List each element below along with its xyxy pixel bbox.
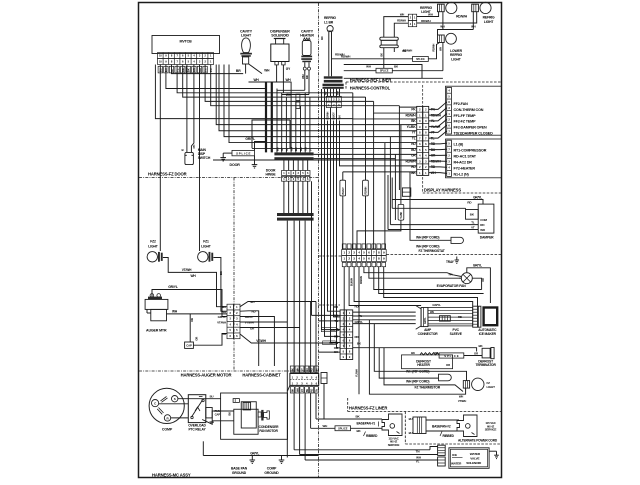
svg-text:BK: BK [292, 389, 295, 393]
svg-text:HINGE: HINGE [266, 172, 277, 176]
ground door [222, 153, 224, 158]
wire ref conn down 4 [331, 108, 341, 343]
svg-text:REFRIG: REFRIG [324, 16, 336, 20]
staircase wire row2 RD/WH [374, 101, 417, 113]
svg-text:GR/YL: GR/YL [424, 317, 427, 324]
svg-text:HEATER: HEATER [300, 34, 314, 38]
wire fz col7 staircase [374, 267, 482, 290]
svg-text:BU: BU [222, 305, 226, 309]
connector cabinet [290, 374, 319, 386]
wire stair x399.4 down [398, 107, 400, 190]
svg-text:CAP: CAP [215, 413, 221, 417]
svg-text:DOOR: DOOR [230, 163, 241, 167]
svg-text:GY: GY [301, 368, 304, 372]
fz fan light bulb [463, 378, 484, 390]
svg-text:YT: YT [412, 131, 416, 135]
svg-text:VT/WH: VT/WH [256, 339, 266, 343]
wire stair x373.6 down [373, 113, 375, 249]
wire tag3 vertical [400, 125, 402, 205]
svg-text:BU/GY: BU/GY [342, 187, 345, 195]
svg-text:VT/WH: VT/WH [245, 321, 254, 325]
wire splice to plug 1 [351, 427, 383, 429]
svg-text:WH: WH [440, 25, 444, 29]
condenser fan circuit box [221, 393, 288, 439]
svg-text:WH: WH [253, 78, 259, 82]
wire trunk heavy 1 [265, 82, 267, 152]
svg-text:BU: BU [409, 417, 413, 421]
svg-text:WH (RIP CORD): WH (RIP CORD) [416, 236, 439, 240]
svg-text:WH: WH [264, 69, 270, 73]
svg-text:BK: BK [219, 271, 223, 275]
svg-text:GY: GY [301, 389, 304, 393]
wire tag2 vertical [365, 97, 367, 180]
condenser fan motor tag [233, 399, 239, 403]
svg-text:GR/YL: GR/YL [245, 137, 255, 141]
connector J1 MVTCB row2 [158, 59, 214, 65]
svg-text:OR: OR [190, 318, 194, 322]
staircase wire row12 WH [410, 171, 417, 173]
center trunk verticals lower [294, 393, 316, 460]
condenser fan motor coil [243, 402, 251, 410]
ground below splice [254, 156, 256, 165]
splice basepan [335, 426, 351, 431]
svg-text:TN: TN [316, 389, 319, 392]
svg-text:GR/YL: GR/YL [245, 315, 254, 319]
wire ref conn down to AMP region 2 [334, 121, 341, 317]
svg-text:SPLICE: SPLICE [416, 58, 425, 61]
wire L1 down to tape [328, 32, 330, 77]
wire dispenser foot drop right GY [282, 65, 284, 93]
svg-text:WH: WH [286, 93, 292, 97]
wire bottom bus GR/YL [203, 455, 318, 457]
svg-text:FZ2: FZ2 [150, 240, 156, 244]
MVTCB pin wire labels [158, 66, 213, 73]
wire pin5 right to control stair x365.5 [183, 65, 366, 98]
wire lower light RD/WH to splice [428, 43, 439, 59]
svg-text:EVAPORATOR FAN: EVAPORATOR FAN [437, 284, 467, 288]
wires into 9-pin connector from left [312, 315, 341, 352]
svg-text:GR/YL: GR/YL [250, 451, 259, 455]
wire GR/YL to damper [392, 200, 483, 205]
display harness lower connector cells [447, 140, 452, 176]
overload PTC relay [188, 395, 206, 423]
svg-text:WH (RIP CORD): WH (RIP CORD) [416, 245, 439, 249]
dashed partition vertical center x=318.5 [318, 3, 320, 477]
wire auger pin2 RD [240, 311, 259, 366]
wire trunk heavy 2 [271, 82, 273, 152]
svg-text:FF2-FAN: FF2-FAN [454, 102, 469, 106]
display harness upper labels [454, 102, 494, 136]
wire FZ1 light to auger connector [213, 258, 227, 312]
svg-text:R4-AC2 DR: R4-AC2 DR [454, 161, 473, 165]
wire fz col9 staircase [384, 267, 478, 307]
staircase wire row5 YT [366, 97, 417, 131]
wire fz col5 evap PK [364, 267, 461, 277]
svg-text:RD: RD [311, 389, 314, 393]
wire pin4 right to control stair x352.8 [177, 65, 353, 93]
staircase wire row8 BU [289, 120, 291, 148]
dashed partition harness-fz-liner y=411.5 [348, 411, 501, 413]
wires rip cords [369, 320, 466, 394]
damper motor box [478, 204, 494, 233]
svg-text:WH: WH [285, 78, 291, 82]
svg-text:HARNESS-FZ DOOR: HARNESS-FZ DOOR [148, 172, 187, 177]
wire bus y29.5 to lower light [438, 30, 474, 36]
connector door hinge row1 [282, 171, 311, 176]
ref connector rotated labels below [327, 111, 342, 119]
svg-text:RD: RD [325, 91, 328, 95]
connector auger 6-pin left column [227, 304, 234, 339]
condenser fan motor body [234, 409, 258, 434]
wire into condenser box lower [212, 420, 234, 422]
svg-text:RD/WH: RD/WH [397, 18, 406, 22]
wire WH to splice basepan [311, 427, 335, 429]
svg-text:FAN MOTOR: FAN MOTOR [259, 429, 278, 433]
wire TN to valve [294, 449, 430, 451]
wire diagonal to cabinet connector [287, 385, 290, 391]
basepan 2 striped connector [413, 417, 426, 434]
svg-text:AUGER MTR: AUGER MTR [146, 329, 167, 333]
ice water valve solenoid box [449, 448, 489, 469]
svg-text:RD/WH: RD/WH [421, 19, 430, 23]
svg-text:BK: BK [411, 351, 415, 355]
svg-text:WH: WH [430, 310, 434, 314]
control board MVTCB [152, 36, 220, 54]
wire to damper coil box [392, 207, 465, 209]
wire auger motor to connector WH [167, 313, 228, 315]
connector ref 6-cell row1 [326, 96, 341, 102]
svg-text:L1 BR: L1 BR [324, 20, 334, 24]
rip cord capsule 1 [439, 374, 452, 381]
svg-text:GR/YL: GR/YL [218, 315, 227, 319]
wire ref liner y78.3 long [344, 77, 443, 79]
svg-text:RD/WH: RD/WH [365, 186, 368, 194]
wire fan y142.55 [229, 65, 385, 143]
wire WH conn to light1 [417, 12, 439, 17]
wire FZ2 light to auger connector [163, 258, 227, 307]
lamp cavity light bulb [240, 38, 252, 64]
wire relay bottom diagonal [202, 411, 234, 424]
svg-text:RD: RD [305, 75, 309, 79]
connector J1 MVTCB row1 [158, 53, 214, 59]
fz pass-through tags above [342, 244, 385, 249]
damper coil box [466, 210, 479, 220]
display harness upper block box [446, 86, 502, 135]
ref liner tape bar 4 [323, 87, 344, 89]
lamp FZ2 light [147, 252, 163, 262]
wire splice to door ground [223, 152, 232, 154]
staircase wire row3 BK [353, 93, 417, 119]
wire fan horizontals into trunk region [285, 96, 287, 98]
main control connector left column [417, 106, 423, 175]
svg-text:FF2-DAMPER OPEN: FF2-DAMPER OPEN [454, 126, 487, 130]
svg-text:TL: TL [471, 221, 475, 225]
lamp receptacle ref cavity [380, 37, 399, 47]
wire splice A left to L1 stack [332, 58, 413, 60]
wire fz col2 to amp [349, 267, 421, 306]
dashed partition harness-auger y=371 [139, 370, 319, 372]
wire pin7 to disp switch [191, 65, 194, 153]
svg-text:RD: RD [311, 368, 314, 372]
inline connector tags WH [296, 94, 300, 100]
dispenser solenoid [271, 39, 289, 65]
svg-text:CAP: CAP [186, 344, 192, 348]
power plug basepan 2 [457, 415, 477, 437]
svg-text:RD/WH: RD/WH [433, 43, 436, 51]
ground compressor [281, 456, 283, 461]
wire lower light WH drop [442, 43, 444, 71]
svg-text:HARNESS-CABINET: HARNESS-CABINET [242, 373, 281, 378]
svg-text:BU/GY: BU/GY [333, 112, 336, 120]
svg-text:BU: BU [275, 147, 279, 151]
splice defrost [439, 353, 464, 358]
connector ref 6-cell row2 [326, 102, 341, 108]
dashed partition harness-ref-liner y=82 [346, 81, 501, 83]
door hinge tape bar 1 [274, 152, 313, 155]
compressor pin C [152, 400, 159, 407]
9-pin connector left labels [321, 305, 339, 354]
connector 4-cell ref door [408, 14, 416, 27]
staircase wire row4 YL/BK [401, 124, 417, 126]
ice maker striped connector 2 [478, 306, 481, 327]
svg-text:COMP: COMP [162, 427, 173, 431]
main dispenser switch [185, 152, 194, 164]
dashed partition control/fz-liner y=256 [319, 255, 342, 257]
splice fz door [232, 150, 255, 155]
wire evap fan GR/YL loop [467, 268, 491, 303]
wire fz col6 evap fan [369, 267, 461, 279]
svg-text:LIGHT: LIGHT [487, 385, 496, 389]
svg-text:ALTERNATE POWER CORD: ALTERNATE POWER CORD [458, 438, 498, 442]
pvc sleeve inner box [440, 316, 451, 321]
svg-text:RT1-COMPRESSOR: RT1-COMPRESSOR [454, 149, 487, 153]
center trunk verticals upper [287, 221, 316, 458]
wire left-of-dash vertical x311.5 [311, 181, 313, 315]
door hinge rotated wire labels [275, 147, 312, 151]
svg-text:PTC RELAY: PTC RELAY [188, 428, 206, 432]
dashed partition harness-fz-door y=177.5 [139, 177, 319, 179]
svg-text:WH: WH [337, 91, 340, 95]
amp connector wedge [416, 306, 428, 330]
svg-text:S: S [174, 397, 176, 401]
cabinet connector rotated labels below [290, 387, 318, 393]
display harness lower labels [454, 143, 487, 177]
condenser fan blade [261, 410, 269, 421]
svg-text:RD: RD [458, 315, 462, 319]
svg-text:BU: BU [251, 300, 255, 304]
control connector left wire labels [405, 108, 416, 175]
wire receptacle WH from connector [384, 17, 409, 38]
svg-text:YL/BK: YL/BK [407, 125, 417, 129]
svg-text:WATER: WATER [470, 452, 481, 456]
svg-text:CONNECTOR: CONNECTOR [418, 332, 439, 336]
svg-text:HEATER: HEATER [417, 363, 430, 367]
svg-text:MVTCB: MVTCB [179, 40, 192, 44]
wires tape to door hinge connector [284, 160, 308, 170]
dashed partition vertical x=234 [233, 178, 235, 372]
ice maker striped connector 1 [473, 306, 478, 327]
run capacitor [206, 408, 212, 418]
wire fz col8 staircase [379, 267, 484, 294]
9-pin connector right labels [355, 305, 364, 346]
svg-text:RD/WH: RD/WH [456, 15, 467, 19]
ref liner tape bar 3 [323, 84, 344, 86]
svg-text:SERVICE: SERVICE [485, 428, 497, 432]
wire compressor S to condenser box [178, 398, 221, 400]
svg-text:BU: BU [306, 368, 309, 372]
wire damper VT [388, 229, 478, 231]
wire fan y118.6 left [155, 65, 352, 119]
wire cap to connector [193, 334, 227, 346]
cabinet connector rotated labels above [290, 366, 318, 372]
wire bus left end up [202, 441, 204, 455]
wires 9-pin to amp connector [353, 312, 416, 324]
svg-text:BU: BU [306, 389, 309, 393]
svg-text:S P L I C E: S P L I C E [444, 354, 458, 358]
svg-text:FF2-FZ TEMP: FF2-FZ TEMP [454, 120, 477, 124]
svg-text:TERMINATOR: TERMINATOR [476, 363, 497, 367]
dashed partition alternate-power-cord box [404, 412, 406, 445]
wire tag1 vertical [342, 172, 344, 180]
svg-text:ICE MAKER: ICE MAKER [479, 332, 497, 336]
wire auger motor OR to cap [189, 314, 191, 342]
svg-text:RD: RD [320, 36, 324, 40]
wire pin8 to FZ1 light [199, 65, 201, 252]
staircase wire row9 OR [314, 153, 417, 155]
svg-text:BU: BU [210, 395, 214, 399]
connector 9-pin left column [340, 310, 346, 360]
lamp lower refrig light [438, 33, 457, 44]
door hinge tape bar 4 [277, 218, 314, 221]
wires control connector to display harness upper [429, 102, 447, 138]
svg-text:WH: WH [400, 12, 404, 16]
svg-text:RD: RD [482, 278, 485, 282]
lamp refrig light 1 [438, 2, 457, 13]
svg-text:WH: WH [366, 65, 371, 69]
wire auger pin1 BU [240, 302, 316, 307]
svg-text:YL/WH: YL/WH [354, 369, 358, 377]
svg-text:GR/YL: GR/YL [331, 328, 340, 332]
svg-text:TN: TN [316, 368, 319, 371]
staircase wire row6 TL [390, 136, 416, 138]
compressor winding marks [161, 397, 167, 401]
cavity heater element [277, 38, 312, 95]
defrost terminator [482, 348, 494, 359]
svg-text:LIGHT: LIGHT [201, 245, 211, 249]
svg-text:BK: BK [294, 147, 298, 151]
svg-text:CON-THERM CON: CON-THERM CON [454, 108, 484, 112]
wire pin10 right [211, 65, 400, 106]
svg-text:GROUND: GROUND [264, 471, 279, 475]
svg-text:WH (RIP CORD): WH (RIP CORD) [406, 380, 429, 384]
svg-text:FY2-HEATER: FY2-HEATER [454, 167, 476, 171]
fz thermostat capsule [451, 237, 463, 243]
staircase wire row10 RD/WH join [413, 159, 417, 161]
ref liner tape bar 1 [324, 76, 343, 78]
wire long run y124.6 YL/BK [216, 65, 401, 125]
svg-text:WH: WH [471, 25, 475, 29]
wire GR/YL trunk to splice [255, 142, 266, 151]
wires door hinge connector down to tape2 [284, 181, 308, 213]
svg-text:VT/WH: VT/WH [329, 341, 338, 345]
wire fz col1 down [343, 267, 345, 348]
wire damper TL [390, 224, 478, 226]
wire light1 drop to y29.5 [442, 12, 444, 30]
staircase wire row7 RD [385, 142, 417, 144]
splice ref liner A [413, 57, 429, 62]
svg-text:GR/YL: GR/YL [473, 195, 482, 199]
wire auger pin3 GR/YL [240, 317, 274, 367]
capacitor CAP auger [185, 342, 194, 348]
svg-text:WH: WH [296, 388, 299, 392]
wire YL to valve [305, 459, 438, 461]
svg-text:SPLICE: SPLICE [338, 427, 348, 431]
svg-text:HARNESS-AUGER MOTOR: HARNESS-AUGER MOTOR [181, 373, 232, 378]
svg-text:ICE: ICE [452, 453, 457, 457]
ice maker head [484, 308, 498, 326]
wires control connector to display harness lower [429, 143, 447, 173]
svg-text:FZ1: FZ1 [203, 240, 209, 244]
svg-text:BR: BR [236, 69, 241, 73]
compressor pin S [172, 396, 178, 402]
svg-text:GR/YL: GR/YL [168, 285, 178, 289]
main control connector right column [423, 106, 429, 175]
evaporator fan motor symbol [459, 273, 472, 284]
svg-text:VT/WH: VT/WH [182, 268, 192, 272]
inline tag YL/BK [398, 204, 404, 220]
wire long run y160 RD/WH [213, 159, 417, 161]
wire receptacle RD/WH from connector [394, 23, 408, 37]
svg-text:HARNESS-CONTROL: HARNESS-CONTROL [350, 86, 391, 91]
wire WH to valve [300, 454, 438, 456]
svg-text:VT/WH: VT/WH [217, 321, 226, 325]
wire splice B right to lower light WH [392, 70, 443, 72]
svg-text:OR: OR [195, 337, 199, 341]
wire receptacle down [383, 48, 385, 69]
wire compressor R to relay [171, 417, 189, 419]
svg-text:SOLENOID: SOLENOID [466, 461, 482, 465]
svg-text:VT/WH: VT/WH [458, 399, 466, 403]
wire pin9 right [205, 65, 374, 102]
ground base pan [251, 456, 253, 461]
wire auger pin4 VT/WH [240, 321, 287, 323]
border frame [139, 3, 502, 478]
wire YL/WH vertical fz liner [358, 267, 360, 395]
svg-text:LIGHT: LIGHT [148, 245, 158, 249]
svg-text:SPLICE: SPLICE [380, 70, 389, 73]
wire from door hinge tape right [314, 158, 396, 160]
svg-text:FF1-FF TEMP: FF1-FF TEMP [454, 114, 477, 118]
svg-text:RIBBED: RIBBED [443, 434, 455, 438]
wire stair x352.8 down to strip [352, 119, 354, 250]
auger motor [145, 294, 168, 321]
wire WH bus y82 cavity [249, 81, 292, 83]
svg-text:L1 (B): L1 (B) [454, 143, 464, 147]
svg-text:FZ THERMISTOR: FZ THERMISTOR [415, 386, 441, 390]
wire fan y130.75 [219, 65, 366, 131]
wire ref conn down 5 [337, 108, 341, 348]
svg-text:RD-AC1 STAT: RD-AC1 STAT [454, 155, 477, 159]
svg-text:WH: WH [296, 367, 299, 371]
dashed partition y=305 stub [319, 304, 341, 306]
wire trunk cross y148.2 [252, 120, 290, 148]
wire pin2 right to trunk [166, 65, 266, 89]
svg-text:RD: RD [299, 147, 303, 151]
svg-text:TD(1)DAMPER CLOSED: TD(1)DAMPER CLOSED [454, 132, 494, 136]
lamp refrig light 2 [472, 2, 491, 13]
inline connector bottom left [321, 373, 327, 384]
wire verticals to door hinge tape [277, 82, 310, 152]
